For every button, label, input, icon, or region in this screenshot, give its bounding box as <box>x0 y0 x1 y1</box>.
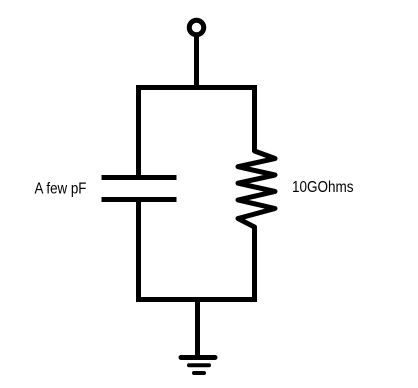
svg-text:A few pF: A few pF <box>35 180 87 197</box>
svg-text:10GOhms: 10GOhms <box>292 179 354 196</box>
